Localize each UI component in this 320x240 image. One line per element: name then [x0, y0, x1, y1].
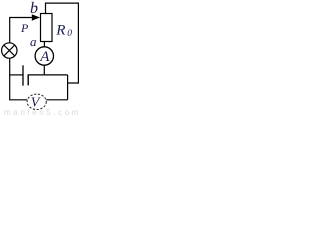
svg-text:0: 0 [67, 29, 72, 39]
svg-text:manfen5.com: manfen5.com [4, 108, 80, 116]
svg-text:P: P [20, 21, 29, 35]
svg-text:V: V [31, 96, 41, 111]
svg-text:a: a [30, 34, 37, 49]
svg-text:b: b [30, 0, 38, 17]
svg-text:R: R [55, 23, 65, 39]
svg-text:A: A [39, 49, 50, 65]
